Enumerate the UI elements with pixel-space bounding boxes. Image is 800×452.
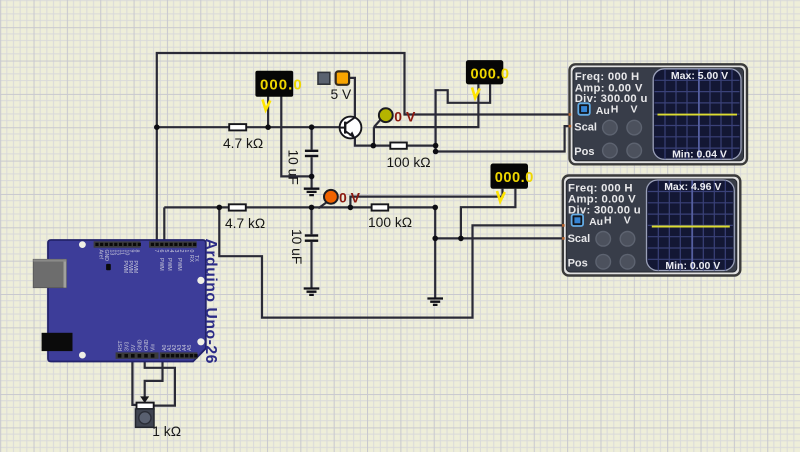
wire scope1 channel B from 100k right node: [436, 126, 574, 151]
svg-text:Freq: 000 H: Freq: 000 H: [568, 182, 633, 194]
svg-text:Vin: Vin: [151, 343, 157, 351]
svg-text:0: 0: [188, 250, 194, 253]
transistor Q1 NPN: [340, 117, 362, 139]
wire 5V source to collector: [349, 78, 355, 117]
svg-text:Pos: Pos: [574, 146, 594, 158]
wire multimeter3 left lead to row2: [350, 189, 502, 208]
resistor R2 4.7k: [225, 204, 265, 231]
svg-text:3V3: 3V3: [125, 342, 131, 351]
probe P2 orange: [324, 190, 361, 206]
svg-text:Max: 5.00 V: Max: 5.00 V: [671, 70, 728, 82]
arduino uno board: [48, 240, 206, 362]
resistor R4 100k: [368, 204, 412, 230]
svg-text:Min: 0.04 V: Min: 0.04 V: [672, 149, 727, 161]
svg-text:Au: Au: [589, 216, 603, 228]
svg-text:V: V: [624, 215, 631, 227]
arduino top header digital 0-7: [149, 241, 197, 247]
svg-text:000.0: 000.0: [260, 76, 303, 93]
resistor R3 100k: [387, 143, 431, 170]
voltage source 5V gray terminal: [318, 72, 330, 84]
scope2 input pins: [562, 224, 565, 240]
arduino pin labels: [98, 250, 200, 352]
oscilloscope U2: [563, 176, 741, 276]
voltage source 5V orange body: [331, 71, 353, 101]
wire scope2 channel B from ground node: [435, 237, 566, 239]
svg-text:RST: RST: [118, 340, 124, 351]
arduino bottom header power: [116, 352, 159, 358]
svg-text:A5: A5: [187, 345, 193, 351]
svg-text:Au: Au: [596, 105, 610, 117]
svg-text:Max: 4.96 V: Max: 4.96 V: [664, 181, 721, 193]
wire R3 right to node: [407, 145, 436, 147]
svg-text:5V: 5V: [131, 344, 137, 351]
wire multimeter2 right lead jog to 100k right node: [436, 84, 491, 151]
scope1 input pins: [569, 113, 572, 127]
wire cap2 bottom to ground2: [310, 242, 312, 288]
svg-text:PWM: PWM: [132, 261, 138, 274]
svg-text:V: V: [631, 103, 638, 115]
wire row2 main: [164, 206, 435, 208]
ground 2: [304, 289, 320, 295]
wire multimeter3 right lead to ground node: [461, 189, 516, 239]
wire multimeter1 right lead to cap1 bottom: [281, 97, 311, 177]
svg-text:10 uF: 10 uF: [286, 150, 301, 185]
capacitor C1 10uF: [286, 150, 319, 185]
wire probe1 node to multimeter2 left lead: [374, 84, 479, 127]
svg-text:1 kΩ: 1 kΩ: [152, 424, 181, 439]
potentiometer RV1 wiper arrow: [140, 396, 149, 403]
svg-text:Scal: Scal: [574, 122, 597, 134]
multimeter M1: [255, 71, 302, 110]
svg-text:8: 8: [134, 250, 140, 253]
svg-text:PWM: PWM: [176, 258, 182, 271]
svg-text:TX: TX: [193, 255, 199, 262]
wire probe1 vertical to emitter node: [373, 127, 375, 146]
svg-text:Aref: Aref: [98, 250, 104, 260]
oscilloscope U1: [570, 64, 748, 164]
arduino label Arduino Uno-26: [202, 239, 219, 364]
wire top rail D8 to scope1 channel A: [157, 53, 574, 242]
svg-text:PWM: PWM: [158, 258, 164, 271]
wire arduino A0 pin to pot wiper: [145, 358, 163, 397]
wire row2 rail to arduino pin: [163, 207, 165, 242]
arduino top header digital 8-13: [94, 241, 141, 247]
svg-text:4.7 kΩ: 4.7 kΩ: [223, 136, 263, 151]
ground 3: [427, 299, 443, 305]
arduino USB connector: [33, 259, 66, 287]
svg-text:Arduino Uno-26: Arduino Uno-26: [202, 239, 219, 364]
svg-text:5 V: 5 V: [331, 87, 353, 102]
probe P1 olive: [379, 108, 416, 124]
svg-text:Freq: 000 H: Freq: 000 H: [575, 71, 640, 83]
wire row1 base wire from rail to transistor base: [157, 126, 340, 128]
ground 1: [304, 189, 320, 195]
svg-text:Scal: Scal: [568, 233, 591, 245]
svg-text:100 kΩ: 100 kΩ: [368, 215, 412, 230]
svg-text:GND: GND: [103, 250, 109, 262]
potentiometer RV1 1k: [136, 403, 182, 439]
svg-text:GND: GND: [138, 339, 144, 351]
multimeter M2: [466, 60, 510, 98]
wire emitter to 100k R3: [355, 137, 390, 145]
capacitor C2 10uF: [289, 229, 318, 264]
wire multimeter1 left lead: [267, 97, 269, 128]
svg-text:10 uF: 10 uF: [289, 229, 304, 264]
wire probe2 pin diagonal: [318, 203, 326, 209]
svg-text:100 kΩ: 100 kΩ: [387, 155, 431, 170]
arduino power jack: [42, 333, 73, 351]
svg-text:0 V: 0 V: [394, 108, 416, 124]
svg-text:0 V: 0 V: [339, 190, 361, 206]
arduino bottom header analog: [160, 352, 198, 358]
wire cap1 branch top: [311, 127, 313, 149]
svg-text:Min: 0.00 V: Min: 0.00 V: [665, 260, 720, 272]
svg-text:GND: GND: [144, 339, 150, 351]
svg-text:H: H: [611, 103, 619, 115]
junction node dots: [154, 124, 464, 241]
svg-text:000.0: 000.0: [495, 170, 534, 186]
wire cap2 branch top: [310, 207, 312, 234]
svg-text:000.0: 000.0: [471, 66, 510, 82]
wire arduino 5V pin to pot right terminal: [145, 358, 175, 406]
wire probe1 pin diagonal: [374, 119, 381, 127]
resistor R1 4.7k: [223, 124, 263, 151]
svg-text:H: H: [604, 215, 612, 227]
wire arduino GND pin to pot left terminal: [132, 358, 136, 405]
arduino onboard led: [106, 264, 111, 270]
multimeter M3: [491, 164, 534, 202]
svg-text:PWM: PWM: [166, 258, 172, 271]
svg-text:4.7 kΩ: 4.7 kΩ: [225, 216, 265, 231]
wire row2 node to scope2 channel A long bottom run: [219, 207, 566, 317]
wire row2 right node down to ground3: [434, 207, 436, 298]
svg-text:Pos: Pos: [568, 257, 588, 269]
wire cap1 bottom to ground1: [311, 157, 313, 188]
